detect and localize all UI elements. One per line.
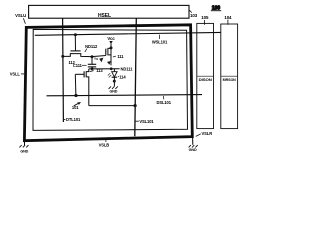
- node dot above ground: [113, 80, 116, 83]
- node dot DTL-112: [61, 55, 64, 58]
- sampling transistor 112: [63, 33, 92, 65]
- label DTL101 leader: [63, 118, 65, 120]
- switching transistor 113: [75, 68, 103, 105]
- Vs arrowhead annotation: [107, 61, 111, 65]
- leader 104 tick: [227, 20, 229, 25]
- ground bottom-right: [189, 138, 198, 152]
- horizontal selector box HSEL 103: [29, 5, 189, 18]
- leader VSLR: [196, 134, 201, 137]
- svg-text:GND: GND: [20, 149, 28, 153]
- drive scanner box 105: [197, 23, 214, 128]
- label DSL101 leader: [162, 96, 164, 100]
- svg-text:103: 103: [190, 13, 198, 18]
- svg-text:VSLB: VSLB: [99, 143, 110, 148]
- wire 113 gate to DSL101: [74, 74, 77, 95]
- Vcc supply terminal: [107, 36, 115, 48]
- svg-text:104: 104: [224, 15, 232, 20]
- ground bottom-left: [19, 141, 28, 154]
- pixel pointer arrow 101: [72, 102, 81, 110]
- label 103 leader: [189, 10, 192, 13]
- svg-text:MRSON: MRSON: [223, 78, 237, 82]
- label VSL101 leader: [135, 120, 139, 122]
- pixel array inner box 102: [33, 29, 188, 130]
- wire ND112 to gate of 111: [92, 56, 106, 57]
- svg-text:DISON: DISON: [199, 78, 213, 82]
- svg-text:114: 114: [119, 74, 126, 79]
- label WSL101 leader: [158, 35, 160, 39]
- data line DTL101: [62, 18, 65, 122]
- write scanner box 104: [221, 24, 238, 129]
- svg-text:113: 113: [96, 68, 103, 73]
- node ND111 dot at cap: [91, 68, 94, 71]
- svg-text:VSLR: VSLR: [202, 131, 213, 136]
- svg-text:ND112: ND112: [85, 44, 98, 49]
- ground of EL element: [109, 86, 118, 93]
- leader VSLU to power ring: [23, 18, 25, 24]
- svg-text:Vcc: Vcc: [107, 36, 115, 41]
- EL element 114: [112, 69, 127, 87]
- svg-text:111: 111: [117, 54, 124, 59]
- svg-text:WSL101: WSL101: [152, 39, 168, 44]
- junction dot DSL-113gate: [74, 94, 77, 97]
- svg-text:105: 105: [201, 15, 209, 20]
- svg-text:VSL101: VSL101: [139, 119, 154, 124]
- wire 113 bottom to VSL101: [89, 105, 135, 107]
- junction dot on VSL101: [134, 104, 137, 107]
- capacitor C111: [73, 57, 96, 69]
- svg-text:DTL101: DTL101: [66, 117, 81, 122]
- drive scan line DSL101: [47, 95, 203, 96]
- svg-text:101: 101: [72, 105, 79, 110]
- EL emission arrows: [108, 73, 111, 77]
- svg-text:VSLU: VSLU: [15, 13, 26, 18]
- svg-text:GND: GND: [109, 89, 117, 93]
- figure number 100: [211, 5, 221, 11]
- svg-text:C111: C111: [73, 63, 83, 68]
- leader 105 tick: [204, 20, 206, 25]
- drive transistor 111: [106, 46, 124, 65]
- leader ND112: [85, 49, 87, 52]
- svg-text:ND111: ND111: [121, 66, 134, 71]
- node ND111 dot at source: [110, 67, 113, 70]
- svg-text:GND: GND: [189, 148, 197, 152]
- node ND112 dot: [91, 55, 94, 58]
- svg-text:HSEL: HSEL: [98, 13, 111, 19]
- leader VSLL: [21, 73, 24, 75]
- write scan line WSL101: [35, 32, 221, 35]
- svg-text:Vg: Vg: [94, 56, 98, 60]
- leader VSLB tick: [105, 139, 107, 142]
- node ND111 wire: [89, 68, 120, 70]
- power supply ring VSL (thick): [24, 25, 192, 141]
- Vg arrowhead annotation: [94, 56, 103, 62]
- power line VSL101: [135, 18, 137, 136]
- svg-text:DSL101: DSL101: [156, 100, 171, 105]
- svg-text:VSLL: VSLL: [10, 72, 21, 77]
